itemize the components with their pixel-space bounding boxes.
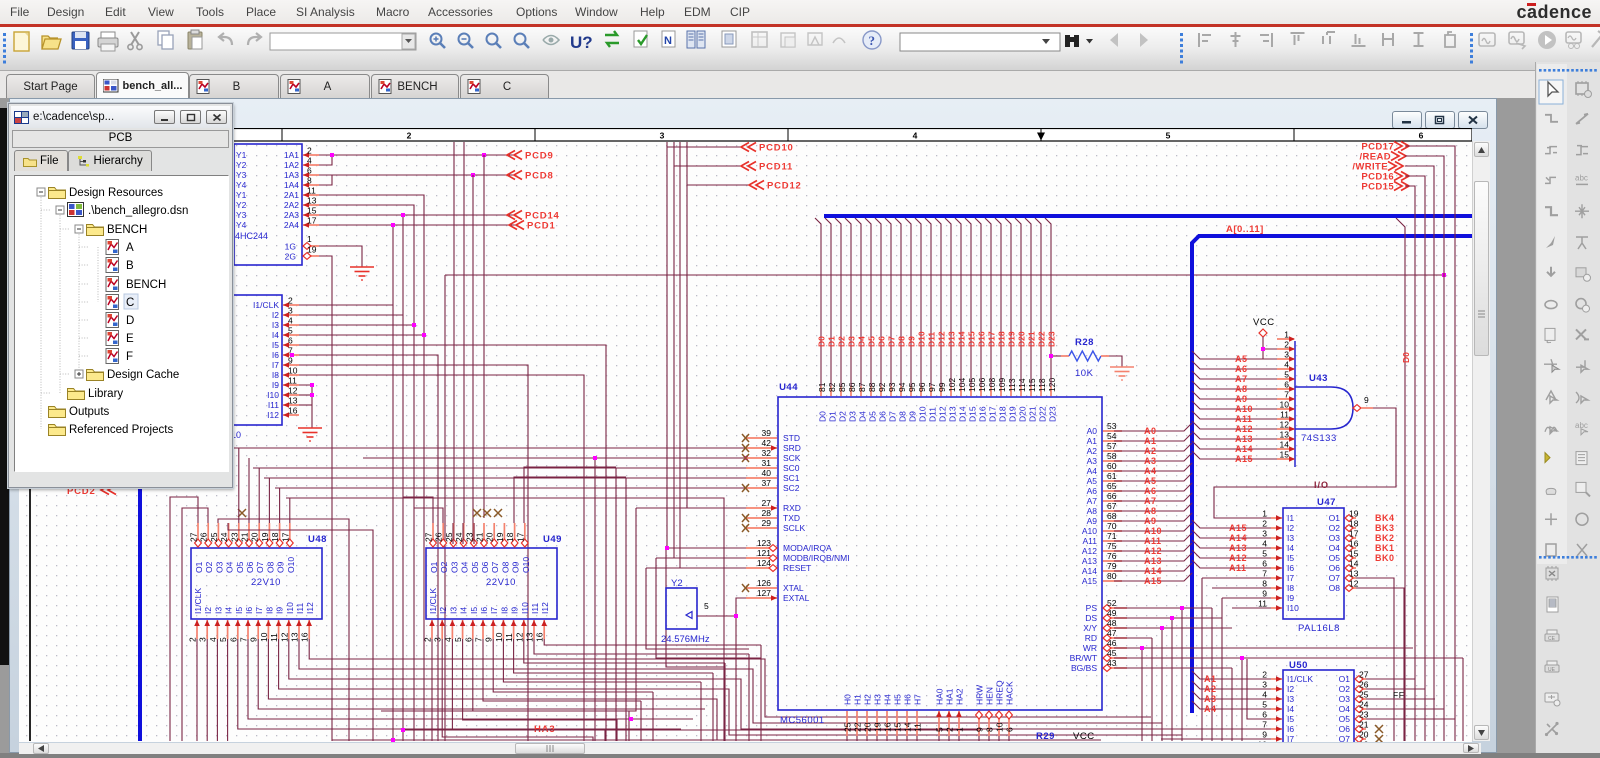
wire U47 I8 — [1212, 587, 1271, 589]
wire from PCD1 node down — [392, 225, 394, 741]
wire vertical x1201 — [1201, 578, 1203, 741]
wire U49 bottom staircase — [544, 639, 761, 645]
svg-text:24: 24 — [219, 532, 229, 542]
wire U48 bottom down — [227, 639, 229, 741]
svg-text:D21: D21 — [1027, 331, 1037, 347]
svg-text:71: 71 — [1107, 531, 1117, 541]
U48 top pins O1-O10 — [197, 523, 199, 547]
svg-text:SRD: SRD — [783, 443, 801, 453]
svg-text:47: 47 — [1107, 628, 1117, 638]
svg-text:19: 19 — [495, 532, 505, 542]
svg-text:I10: I10 — [1287, 603, 1299, 613]
off-page connector PCD11 — [741, 162, 756, 171]
wire VCC branch pin2 — [1263, 358, 1291, 360]
svg-text:2: 2 — [1262, 670, 1267, 680]
svg-text:A14: A14 — [1229, 533, 1247, 543]
svg-text:11: 11 — [1280, 410, 1289, 420]
svg-text:I6: I6 — [1287, 724, 1294, 734]
svg-text:A13: A13 — [1144, 556, 1162, 566]
svg-text:A6: A6 — [1235, 364, 1248, 374]
junction — [391, 738, 395, 742]
wire U49 I1 down — [431, 639, 433, 741]
svg-text:?: ? — [869, 33, 876, 48]
svg-text:C: C — [126, 297, 134, 309]
svg-text:D12: D12 — [937, 331, 947, 347]
svg-text:D4: D4 — [857, 336, 867, 347]
svg-text:HACK: HACK — [1005, 681, 1015, 705]
wire U48 bottom staircase — [289, 639, 1172, 729]
svg-text:11: 11 — [504, 633, 514, 642]
svg-text:25: 25 — [843, 722, 853, 732]
bus vertical at left (below palette) — [138, 456, 142, 741]
svg-text:10: 10 — [1258, 740, 1268, 743]
svg-text:HREQ: HREQ — [995, 680, 1005, 705]
wire band y447 to SRD — [234, 447, 746, 449]
svg-text:I2: I2 — [1287, 523, 1294, 533]
svg-text:27: 27 — [762, 498, 772, 508]
svg-text:20: 20 — [1359, 730, 1369, 740]
svg-text:88: 88 — [867, 382, 877, 392]
svg-text:9: 9 — [975, 727, 985, 732]
wire U48 bottom staircase — [299, 639, 1162, 723]
svg-text:I9: I9 — [1287, 593, 1294, 603]
svg-text:31: 31 — [762, 458, 772, 468]
svg-text:39: 39 — [762, 428, 772, 438]
svg-text:80: 80 — [1107, 571, 1117, 581]
svg-text:120: 120 — [1047, 378, 1057, 392]
svg-text:10K: 10K — [1075, 368, 1094, 379]
wire U48 bottom staircase — [309, 639, 1151, 717]
svg-text:I1/CLK: I1/CLK — [428, 588, 438, 614]
svg-text:75: 75 — [1107, 541, 1117, 551]
svg-text:I2: I2 — [272, 310, 279, 320]
svg-text:6: 6 — [1284, 380, 1289, 390]
svg-text:D14: D14 — [957, 331, 967, 347]
svg-text:A0: A0 — [1144, 426, 1157, 436]
svg-text:6: 6 — [1262, 559, 1267, 569]
svg-text:6: 6 — [307, 166, 312, 176]
svg-text:Y2: Y2 — [236, 200, 247, 210]
IC 74HC244 octal buffer — [234, 144, 302, 265]
wire to MODA/IRQA — [666, 547, 746, 549]
svg-text:8: 8 — [985, 727, 995, 732]
wire U48 O1 up-left-down — [170, 497, 198, 741]
svg-text:I9: I9 — [275, 607, 285, 614]
svg-text:HA0: HA0 — [935, 688, 945, 705]
svg-text:I12: I12 — [267, 410, 279, 420]
svg-text:PCD9: PCD9 — [525, 151, 554, 162]
svg-text:10: 10 — [995, 722, 1005, 732]
svg-text:4: 4 — [443, 637, 453, 642]
wire U48 top pin 9 to band — [279, 488, 281, 523]
no-connect X above U48 pin 23 — [238, 509, 246, 517]
wire vertical x666 — [666, 142, 668, 548]
svg-text:D0: D0 — [818, 411, 828, 422]
svg-text:I7: I7 — [254, 607, 264, 614]
svg-text:9: 9 — [1364, 395, 1369, 405]
wire PCD11 — [674, 165, 740, 167]
IC U49 22V10 PAL — [426, 548, 557, 619]
svg-text:UE: UE — [1548, 667, 1556, 673]
svg-text:10: 10 — [259, 632, 269, 642]
junction at D23 — [1049, 354, 1053, 358]
svg-text:82: 82 — [827, 382, 837, 392]
svg-text:SC2: SC2 — [783, 483, 800, 493]
svg-text:93: 93 — [887, 382, 897, 392]
svg-text:Y1: Y1 — [236, 190, 247, 200]
wire vertical x1221 — [1221, 598, 1223, 741]
svg-text:D12: D12 — [938, 406, 948, 422]
svg-text:I1/CLK: I1/CLK — [1287, 674, 1313, 684]
svg-text:2: 2 — [288, 296, 293, 306]
U44 right control pins — [1103, 607, 1127, 609]
svg-text:D17: D17 — [987, 331, 997, 347]
wire U49 O1 left — [403, 497, 433, 523]
svg-text:2: 2 — [307, 146, 312, 156]
svg-text:A10: A10 — [1082, 526, 1097, 536]
svg-text:115: 115 — [1027, 378, 1037, 392]
svg-text:D3: D3 — [848, 411, 858, 422]
svg-text:26: 26 — [1359, 680, 1369, 690]
svg-text:22: 22 — [853, 722, 863, 732]
svg-text:O5: O5 — [470, 561, 480, 573]
svg-text:I9: I9 — [272, 380, 279, 390]
wire U50 I5 — [1247, 659, 1271, 719]
svg-text:11: 11 — [269, 633, 279, 642]
svg-text:I7: I7 — [489, 607, 499, 614]
svg-text:A5: A5 — [1235, 354, 1248, 364]
svg-text:A7: A7 — [1235, 374, 1248, 384]
svg-text:D1: D1 — [828, 411, 838, 422]
svg-text:O8: O8 — [1329, 583, 1341, 593]
svg-text:SC1: SC1 — [783, 473, 800, 483]
svg-text:R28: R28 — [1075, 337, 1094, 348]
IC 22V10 PAL (left, partially hidden by palette) — [226, 295, 282, 425]
svg-text:2: 2 — [945, 727, 955, 732]
junction — [422, 333, 426, 337]
junction — [401, 728, 405, 732]
svg-text:99: 99 — [937, 382, 947, 392]
svg-text:D19: D19 — [1008, 406, 1018, 422]
svg-text:D19: D19 — [1007, 331, 1017, 347]
svg-text:A3: A3 — [1204, 694, 1217, 704]
svg-text:A5: A5 — [1087, 476, 1098, 486]
wire /WRITE down — [1405, 166, 1434, 741]
svg-text:1A1: 1A1 — [284, 150, 299, 160]
svg-text:60: 60 — [1107, 461, 1117, 471]
wire I8 down — [299, 375, 584, 741]
IC U50 PAL (bottom right) — [1283, 670, 1354, 754]
junction — [734, 614, 738, 618]
svg-text:O7: O7 — [490, 561, 500, 573]
svg-text:2: 2 — [188, 637, 198, 642]
wire MODA bend down-right — [666, 548, 725, 667]
svg-text:D22: D22 — [1037, 331, 1047, 347]
U44 right pins A0-A15 — [1103, 430, 1122, 432]
svg-text:PCD10: PCD10 — [759, 143, 794, 154]
floating project palette window — [8, 103, 233, 488]
wire down — [724, 663, 726, 741]
wire U48 top pin 10 to band — [289, 498, 291, 523]
svg-text:123: 123 — [757, 538, 771, 548]
svg-text:3: 3 — [288, 306, 293, 316]
svg-text:49: 49 — [1107, 608, 1117, 618]
svg-text:23: 23 — [464, 532, 474, 542]
svg-text:I6: I6 — [1287, 563, 1294, 573]
wire MODB bend down-right — [656, 558, 761, 658]
svg-text:O2: O2 — [439, 561, 449, 573]
wire U49 bottom staircase left — [463, 639, 617, 741]
svg-text:102: 102 — [947, 378, 957, 392]
svg-text:21: 21 — [475, 532, 485, 542]
wire 2A1 down — [319, 195, 424, 741]
IC U44 MC56001 DSP — [778, 397, 1102, 710]
svg-text:H1: H1 — [853, 694, 863, 705]
wire U49 bottom staircase left — [442, 639, 593, 741]
svg-text:86: 86 — [847, 382, 857, 392]
wire PCD15 down — [1405, 186, 1415, 741]
svg-text:D14: D14 — [958, 406, 968, 422]
IC U48 22V10 PAL — [191, 548, 322, 619]
wire I5 long down — [299, 345, 606, 741]
svg-text:27: 27 — [1359, 670, 1369, 680]
wire U49 O4 stub — [462, 523, 464, 544]
svg-text:13: 13 — [525, 632, 535, 642]
wire band y497 down — [286, 498, 724, 741]
svg-text:O6: O6 — [480, 561, 490, 573]
svg-text:114: 114 — [1017, 378, 1027, 392]
wire U48 O3 — [218, 519, 349, 741]
svg-text:D2: D2 — [837, 336, 847, 347]
wire vertical x472 — [472, 175, 474, 544]
junction — [412, 323, 416, 327]
wire I6 down — [299, 355, 438, 741]
svg-text:17: 17 — [280, 532, 290, 542]
svg-text:D6: D6 — [877, 336, 887, 347]
svg-text:4: 4 — [1284, 360, 1289, 370]
svg-text:27: 27 — [424, 532, 434, 542]
junction — [391, 223, 395, 227]
svg-text:76: 76 — [1107, 551, 1117, 561]
svg-text:D9: D9 — [907, 336, 917, 347]
bus A[0..11] — [1192, 236, 1472, 713]
svg-text:BENCH: BENCH — [126, 279, 166, 291]
wire U49 bottom staircase — [503, 639, 701, 682]
wire band y467 to SC0 — [253, 467, 746, 469]
U48 bottom pins I1-I12 — [196, 620, 198, 639]
svg-text:A4: A4 — [1087, 466, 1098, 476]
svg-text:95: 95 — [907, 382, 917, 392]
svg-text:10: 10 — [288, 366, 298, 376]
svg-text:A2: A2 — [1087, 446, 1098, 456]
svg-text:2: 2 — [1284, 340, 1289, 350]
wires A1-A4 from bus to U50 — [1192, 671, 1271, 679]
svg-text:25: 25 — [444, 532, 454, 542]
wire I3 — [299, 324, 414, 326]
svg-text:A15: A15 — [1082, 576, 1097, 586]
svg-text:EXTAL: EXTAL — [783, 593, 810, 603]
svg-text:2: 2 — [1262, 519, 1267, 529]
svg-text:13: 13 — [1349, 569, 1359, 579]
svg-text:abc: abc — [1575, 421, 1588, 430]
svg-text:I5: I5 — [1287, 714, 1294, 724]
svg-text:5: 5 — [1166, 131, 1171, 141]
svg-text:O1: O1 — [1339, 674, 1351, 684]
svg-text:O4: O4 — [1329, 543, 1341, 553]
svg-text:23: 23 — [229, 532, 239, 542]
wire below Y2 node — [735, 616, 737, 741]
svg-text:D7: D7 — [888, 411, 898, 422]
wire U48 bottom down — [206, 639, 208, 741]
svg-text:VCC: VCC — [1073, 731, 1095, 742]
svg-text:I5: I5 — [234, 607, 244, 614]
svg-text:65: 65 — [1107, 481, 1117, 491]
svg-text:Outputs: Outputs — [69, 406, 110, 418]
svg-text:3: 3 — [1284, 350, 1289, 360]
vertical scrollbar — [1472, 141, 1490, 741]
svg-text:DS: DS — [1085, 613, 1097, 623]
window buttons — [1392, 111, 1488, 129]
svg-text:127: 127 — [757, 588, 771, 598]
wire U48 top pin 5 to band — [238, 448, 240, 523]
svg-text:92: 92 — [877, 382, 887, 392]
svg-text:FF: FF — [1393, 690, 1404, 700]
svg-text:A6: A6 — [1087, 486, 1098, 496]
wires U50 outputs — [1366, 678, 1415, 680]
wire U49 O9 — [514, 477, 626, 523]
svg-text:D23: D23 — [1047, 331, 1057, 347]
wire 1G to ground — [319, 246, 362, 267]
wire band y487 to SC2 — [275, 487, 746, 489]
svg-text:I10: I10 — [267, 390, 279, 400]
svg-text:A13: A13 — [1229, 543, 1247, 553]
svg-text:54: 54 — [1107, 431, 1117, 441]
svg-text:O6: O6 — [245, 561, 255, 573]
wire U49 O3 stub — [452, 523, 454, 544]
wire vertical x594 — [594, 458, 596, 741]
svg-text:79: 79 — [1107, 561, 1117, 571]
wire U48 top pin 8 to band — [268, 478, 270, 523]
svg-text:Y3: Y3 — [236, 210, 247, 220]
junction — [1240, 656, 1244, 660]
svg-text:16: 16 — [288, 406, 298, 416]
svg-text:4: 4 — [913, 131, 918, 141]
svg-text:I3: I3 — [448, 607, 458, 614]
wire U49 bottom staircase — [514, 639, 713, 673]
U44 bottom pins — [846, 711, 848, 736]
svg-text:24: 24 — [1359, 700, 1369, 710]
svg-text:A11: A11 — [1229, 563, 1247, 573]
svg-text:O2: O2 — [204, 561, 214, 573]
svg-text:WR: WR — [1083, 643, 1097, 653]
svg-text:BK0: BK0 — [1375, 553, 1395, 563]
svg-text:1A3: 1A3 — [284, 170, 299, 180]
svg-text:I1/CLK: I1/CLK — [193, 588, 203, 614]
svg-text:Design Resources: Design Resources — [69, 187, 163, 199]
svg-text:126: 126 — [757, 578, 771, 588]
svg-text:A: A — [126, 242, 134, 254]
svg-text:A[0..11]: A[0..11] — [1226, 224, 1264, 235]
svg-text:I11: I11 — [268, 400, 279, 410]
svg-text:I6: I6 — [244, 607, 254, 614]
svg-text:I2: I2 — [438, 607, 448, 614]
svg-text:96: 96 — [917, 382, 927, 392]
svg-text:3: 3 — [660, 131, 665, 141]
svg-text:Library: Library — [88, 388, 123, 400]
svg-text:HRW: HRW — [975, 685, 985, 705]
svg-text:O9: O9 — [276, 561, 286, 573]
svg-text:5: 5 — [288, 326, 293, 336]
svg-text:A15: A15 — [1235, 454, 1253, 464]
junction — [290, 353, 294, 357]
svg-text:19: 19 — [1349, 509, 1359, 519]
svg-text:21: 21 — [240, 532, 250, 542]
wire /READ down — [1405, 156, 1444, 741]
svg-text:A9: A9 — [1235, 394, 1248, 404]
svg-text:61: 61 — [1107, 471, 1117, 481]
svg-text:A15: A15 — [1229, 523, 1247, 533]
svg-text:45: 45 — [1107, 648, 1117, 658]
svg-text:13: 13 — [288, 396, 298, 406]
svg-text:3: 3 — [1262, 680, 1267, 690]
svg-text:D6: D6 — [878, 411, 888, 422]
svg-text:4: 4 — [1262, 539, 1267, 549]
U44 top pins D0-D23 — [820, 386, 822, 396]
svg-text:D5: D5 — [868, 411, 878, 422]
wire 2A2 down — [319, 205, 414, 741]
svg-text:5: 5 — [935, 727, 945, 732]
svg-text:24.576MHz: 24.576MHz — [661, 634, 710, 645]
svg-text:O1: O1 — [429, 561, 439, 573]
svg-text:X/Y: X/Y — [1083, 623, 1097, 633]
wire down — [700, 682, 702, 741]
wire PCD17 down — [1405, 146, 1455, 741]
junction — [629, 717, 633, 721]
svg-text:2: 2 — [423, 637, 433, 642]
svg-text:Design Cache: Design Cache — [107, 369, 179, 381]
svg-text:4: 4 — [288, 316, 293, 326]
svg-text:26: 26 — [434, 532, 444, 542]
wire to EXTAL — [736, 598, 746, 616]
svg-text:H0: H0 — [843, 694, 853, 705]
svg-text:A12: A12 — [1082, 546, 1097, 556]
wire U48 O2 up-left-down — [182, 508, 208, 741]
wire U48 top pin 6 to band — [248, 458, 250, 523]
off-page connector PCD14 — [507, 211, 522, 220]
wire U49 bottom staircase — [493, 639, 653, 692]
svg-text:19: 19 — [1359, 740, 1369, 743]
svg-text:A8: A8 — [1235, 384, 1248, 394]
svg-text:6: 6 — [288, 336, 293, 346]
wire long horizontal y274 — [445, 274, 1444, 276]
off-page connector PCD8 — [507, 171, 522, 180]
svg-text:6: 6 — [228, 637, 238, 642]
svg-text:O5: O5 — [1339, 714, 1351, 724]
svg-text:VCC: VCC — [1253, 317, 1275, 328]
svg-text:D13: D13 — [947, 331, 957, 347]
svg-text:2G: 2G — [285, 252, 296, 262]
svg-text:BK1: BK1 — [1375, 543, 1395, 553]
wire band y477 to SC1 — [264, 477, 746, 479]
wire vertical x483 — [483, 155, 485, 518]
svg-text:D7: D7 — [887, 336, 897, 347]
junction — [471, 173, 475, 177]
svg-text:MC56001: MC56001 — [780, 715, 825, 726]
svg-text:70: 70 — [1107, 521, 1117, 531]
svg-text:PCD12: PCD12 — [767, 181, 802, 192]
junction — [1170, 616, 1174, 620]
svg-text:A1: A1 — [1144, 436, 1157, 446]
